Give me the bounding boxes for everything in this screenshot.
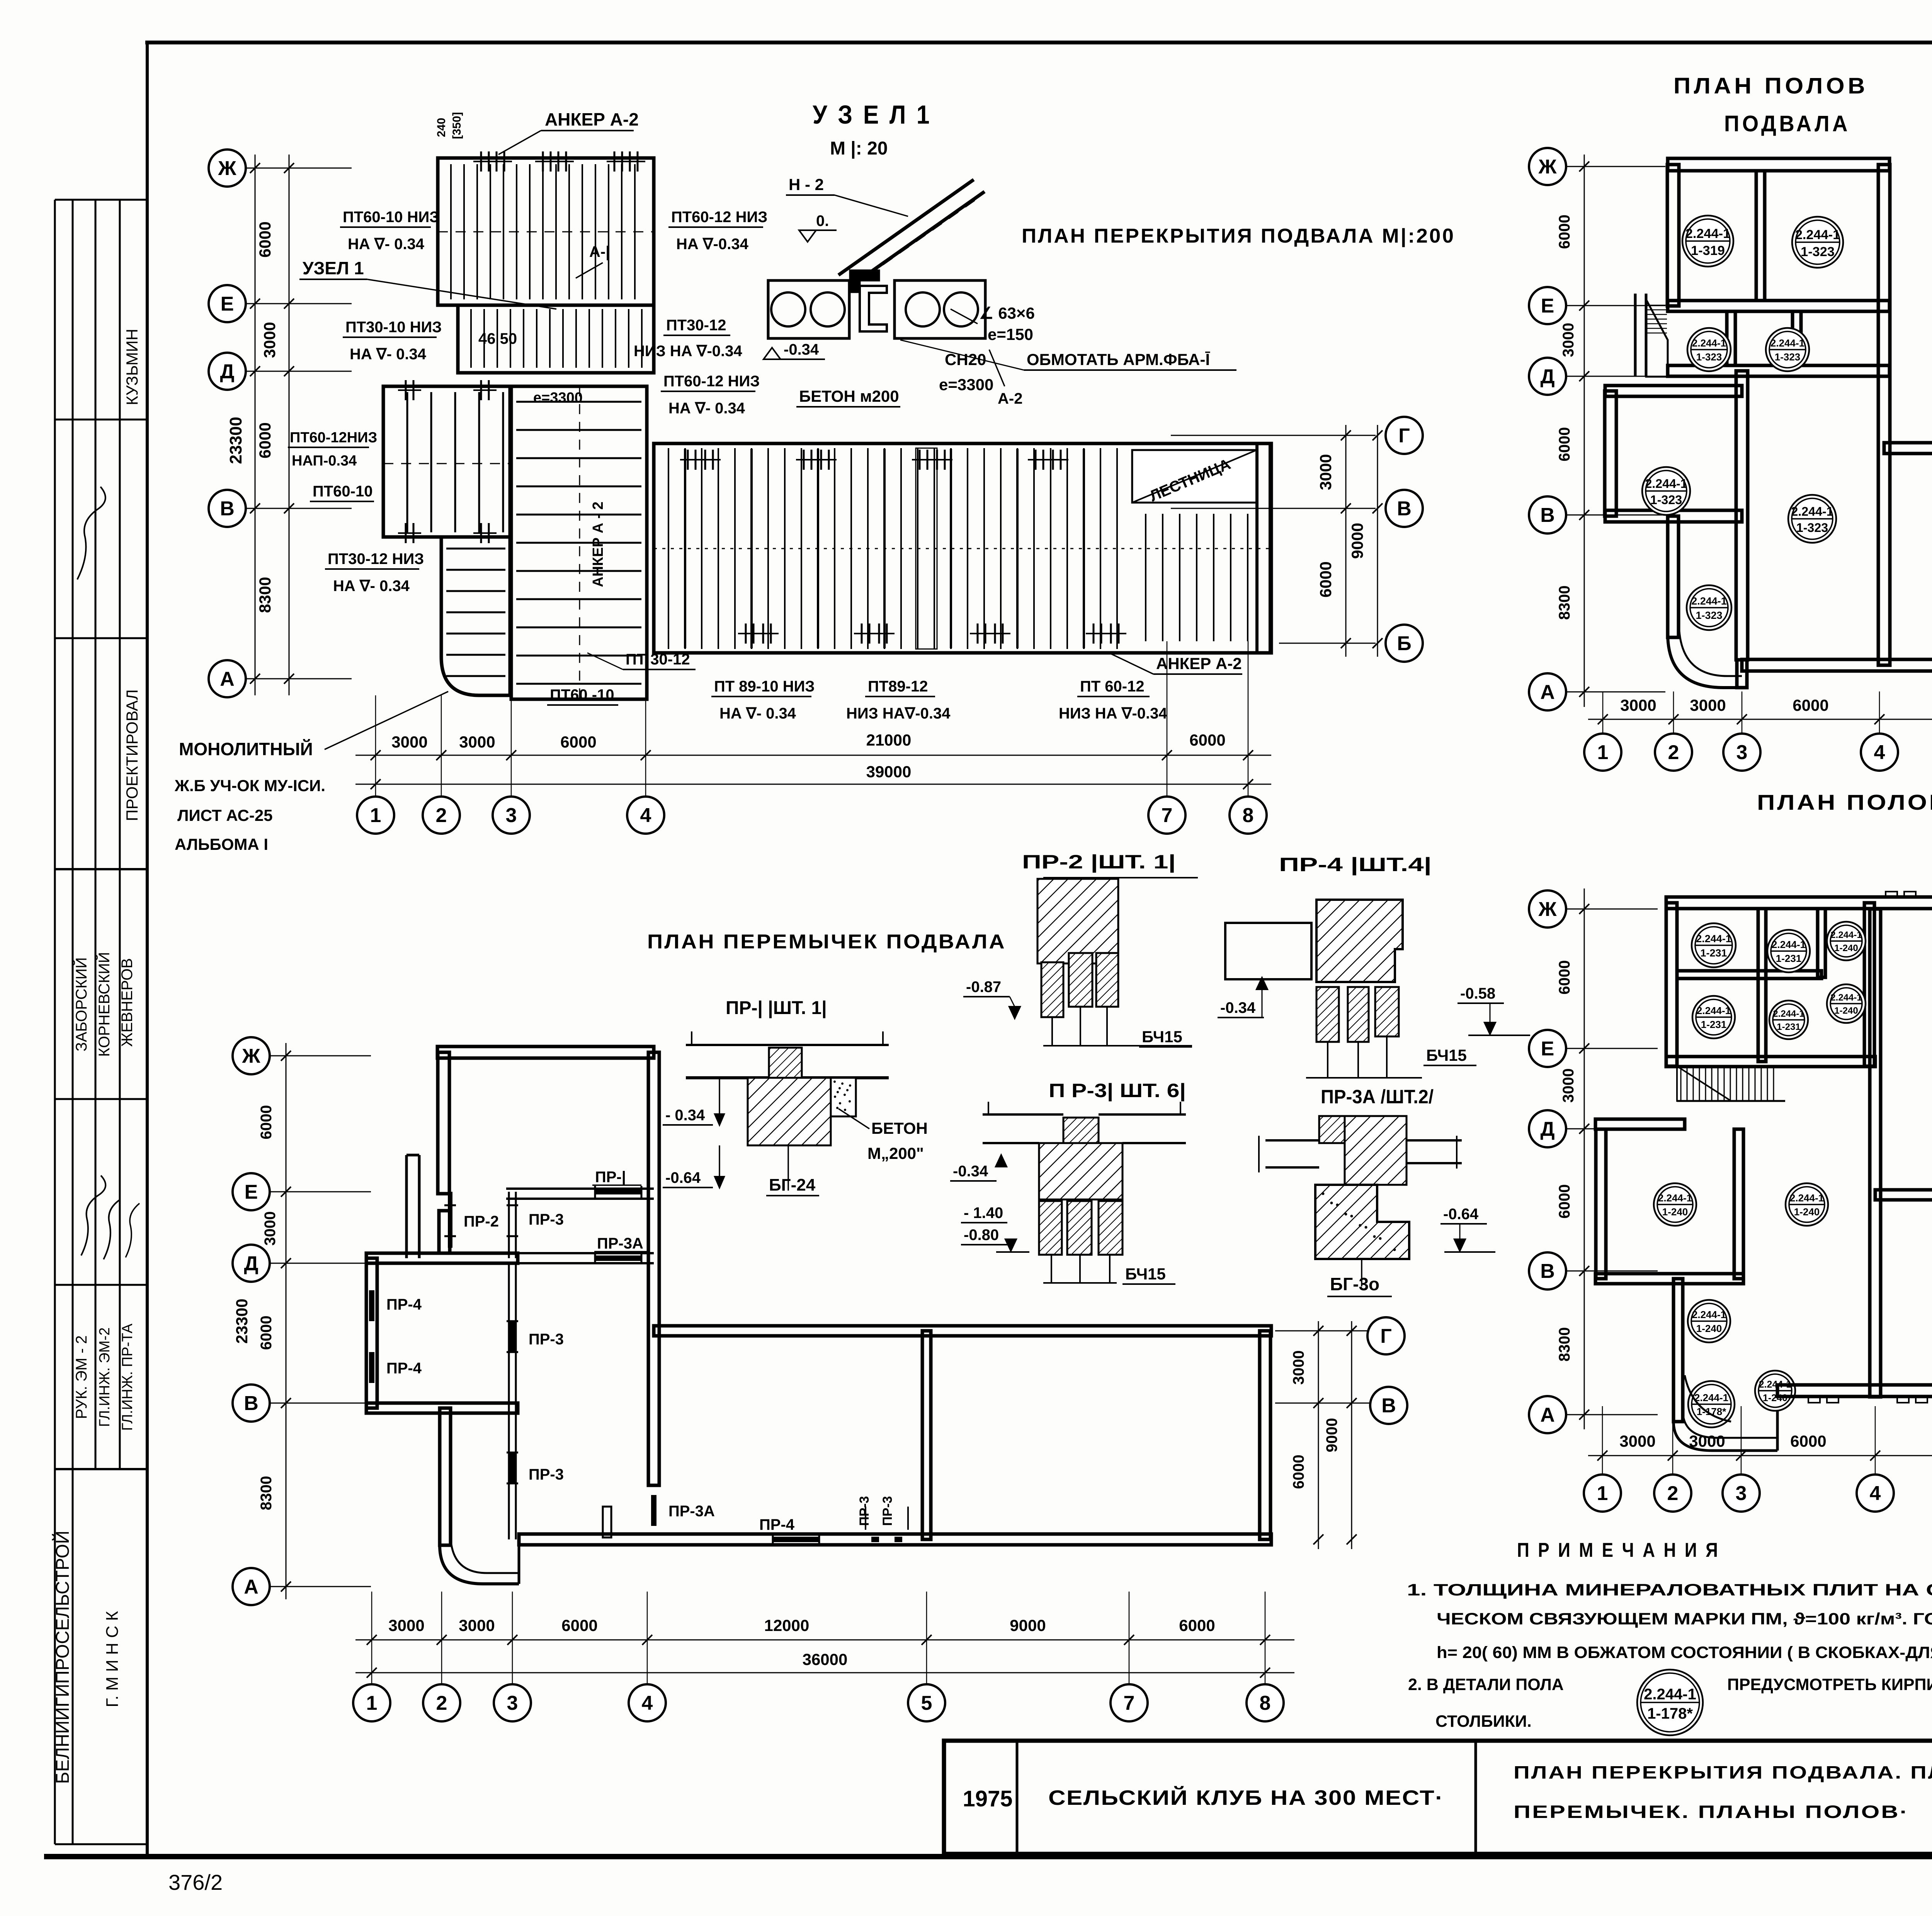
svg-text:БЧ15: БЧ15 <box>1125 1265 1166 1283</box>
BL plan bottom grid bubbles <box>353 1684 390 1721</box>
svg-text:БГ-3о: БГ-3о <box>1330 1274 1379 1294</box>
svg-text:12000: 12000 <box>764 1616 810 1634</box>
svg-text:Д: Д <box>220 360 234 383</box>
BL wall D with PR-3A <box>406 1252 654 1254</box>
uzel1 slab left <box>768 280 849 338</box>
svg-text:ПР-2 |ШТ. 1|: ПР-2 |ШТ. 1| <box>1022 851 1176 873</box>
svg-text:9000: 9000 <box>1348 523 1366 559</box>
svg-text:2: 2 <box>1668 741 1679 764</box>
svg-text:СЕЛЬСКИЙ КЛУБ НА 300 МЕСТ·: СЕЛЬСКИЙ КЛУБ НА 300 МЕСТ· <box>1048 1786 1444 1809</box>
svg-text:2: 2 <box>436 804 447 827</box>
svg-text:9000: 9000 <box>1323 1418 1340 1453</box>
svg-text:ПЛАН ПЕРЕКРЫТИЯ ПОДВАЛА М|:: ПЛАН ПЕРЕКРЫТИЯ ПОДВАЛА М|:200 <box>1022 225 1455 247</box>
svg-text:1975: 1975 <box>963 1786 1012 1811</box>
svg-text:1-319: 1-319 <box>1691 243 1725 258</box>
TL plan lower right slab field <box>1146 514 1248 641</box>
svg-text:ПР-4: ПР-4 <box>386 1296 422 1313</box>
svg-text:ПР-4: ПР-4 <box>759 1516 795 1533</box>
BR plan left dimension chain <box>1584 888 1585 1429</box>
svg-text:В: В <box>220 498 235 520</box>
BL plan left dimension chain <box>286 1043 287 1599</box>
BL plan left block walls <box>366 1258 377 1408</box>
TL plan strip E-D slab field <box>458 305 654 373</box>
svg-text:2: 2 <box>436 1692 447 1714</box>
stamp table grid <box>54 200 56 1844</box>
svg-text:3000: 3000 <box>260 322 279 358</box>
svg-text:3000: 3000 <box>1690 696 1726 714</box>
svg-text:НИЗ НА ∇-0.34: НИЗ НА ∇-0.34 <box>1059 705 1167 722</box>
svg-text:ПР-4 |ШТ.4|: ПР-4 |ШТ.4| <box>1279 854 1432 876</box>
BL plan right dimension chain <box>1275 1330 1376 1332</box>
svg-text:НИЗ НА∇-0.34: НИЗ НА∇-0.34 <box>846 705 951 722</box>
svg-text:-0.64: -0.64 <box>1443 1206 1479 1223</box>
TR room circle 1-323 e <box>1687 585 1731 630</box>
BL lintel PR-2 <box>448 1192 452 1248</box>
svg-text:- 0.34: - 0.34 <box>665 1107 705 1124</box>
svg-text:2.244-1: 2.244-1 <box>1791 505 1833 518</box>
TL plan left slab field <box>383 386 510 537</box>
svg-text:8300: 8300 <box>1556 1327 1573 1362</box>
svg-text:3: 3 <box>1736 1482 1747 1505</box>
TR room circle 1-323 a <box>1792 217 1843 268</box>
svg-text:ПЛАН ПЕРЕКРЫТИЯ ПОДВАЛА. ПЛАН: ПЛАН ПЕРЕКРЫТИЯ ПОДВАЛА. ПЛАН И СЕЧЕНИЯ <box>1514 1762 1932 1782</box>
svg-text:8300: 8300 <box>258 1476 275 1510</box>
TL plan anchors right field <box>687 450 689 470</box>
svg-text:2.244-1: 2.244-1 <box>1773 1009 1804 1019</box>
PR-4 big hatched block <box>1316 900 1403 982</box>
BL plan bottom dimension rows <box>355 1639 1294 1641</box>
svg-text:1-240: 1-240 <box>1794 1206 1820 1218</box>
svg-text:2.244-1: 2.244-1 <box>1795 228 1840 242</box>
svg-text:2: 2 <box>1667 1482 1679 1505</box>
svg-text:Г: Г <box>1398 425 1410 447</box>
svg-text:А: А <box>244 1576 259 1598</box>
TL plan upper slab field <box>438 158 654 305</box>
svg-text:6000: 6000 <box>1556 215 1573 249</box>
uzel1 beam diagonal <box>838 180 974 275</box>
svg-text:НАП-0.34: НАП-0.34 <box>292 453 357 469</box>
svg-text:В: В <box>1540 504 1555 527</box>
svg-text:Д: Д <box>1540 1118 1554 1140</box>
PR-1 big hatched block <box>748 1078 831 1145</box>
svg-text:ПР-3: ПР-3 <box>529 1466 564 1483</box>
svg-text:1-323: 1-323 <box>1696 351 1722 363</box>
TR room circle 1-319 <box>1682 216 1733 267</box>
svg-text:1: 1 <box>1597 741 1609 764</box>
BR room circle 1-240 bottom <box>1755 1371 1795 1411</box>
svg-text:e=3300: e=3300 <box>533 390 583 406</box>
BL plan staircase protrusion <box>405 1155 408 1258</box>
svg-text:ПТ 89-10 НИЗ: ПТ 89-10 НИЗ <box>714 678 815 695</box>
svg-text:БЧ15: БЧ15 <box>1426 1046 1467 1064</box>
svg-text:ПР-3: ПР-3 <box>529 1211 564 1228</box>
svg-text:-0.64: -0.64 <box>665 1169 701 1186</box>
svg-text:e=3300: e=3300 <box>939 375 993 394</box>
svg-text:-0.34: -0.34 <box>953 1163 988 1180</box>
svg-text:46 50: 46 50 <box>478 330 517 347</box>
svg-text:Е: Е <box>1541 1038 1554 1060</box>
svg-text:В: В <box>1540 1260 1555 1283</box>
svg-text:7: 7 <box>1162 804 1173 827</box>
BL col3 wall below V with PR-3 <box>508 1408 510 1539</box>
BL plan lower-left walls <box>440 1408 451 1545</box>
svg-text:1-231: 1-231 <box>1701 1019 1727 1030</box>
BR room circle 1-178* <box>1688 1381 1735 1427</box>
PR-3 small blocks row <box>1039 1201 1062 1255</box>
svg-text:ПТ60-12 НИЗ: ПТ60-12 НИЗ <box>663 373 760 390</box>
svg-text:Н - 2: Н - 2 <box>789 175 824 194</box>
svg-text:ПТ89-12: ПТ89-12 <box>868 678 928 695</box>
svg-text:НА ∇-0.34: НА ∇-0.34 <box>676 236 749 253</box>
svg-text:ПТ 30-12: ПТ 30-12 <box>626 651 690 668</box>
svg-text:2.244-1: 2.244-1 <box>1697 1005 1731 1016</box>
svg-text:НА ∇- 0.34: НА ∇- 0.34 <box>348 236 425 253</box>
svg-text:ЛИСТ АС-25: ЛИСТ АС-25 <box>177 806 273 824</box>
svg-text:3: 3 <box>507 1692 518 1714</box>
svg-text:240: 240 <box>435 118 448 137</box>
svg-text:ПТ30-10 НИЗ: ПТ30-10 НИЗ <box>345 319 442 336</box>
TL plan dashed plate near col5 <box>916 448 937 649</box>
PR-2 small blocks row <box>1041 962 1063 1017</box>
svg-text:ПТ60-12НИЗ: ПТ60-12НИЗ <box>290 430 377 446</box>
svg-text:Ж.Б УЧ-ОК МУ-IСИ.: Ж.Б УЧ-ОК МУ-IСИ. <box>174 776 325 795</box>
svg-text:БЕЛНИИГИПРОСЕЛЬСТРОЙ: БЕЛНИИГИПРОСЕЛЬСТРОЙ <box>52 1531 73 1784</box>
BR plan J wall <box>1666 897 1932 909</box>
TR room circle 1-323 d <box>1642 467 1690 515</box>
svg-text:8300: 8300 <box>1556 586 1573 620</box>
svg-text:3000: 3000 <box>388 1616 424 1634</box>
svg-text:3: 3 <box>1736 741 1748 764</box>
PR-3A lower block BG-3o <box>1315 1185 1409 1259</box>
svg-text:-0.34: -0.34 <box>784 341 819 358</box>
svg-text:3000: 3000 <box>391 733 427 751</box>
svg-text:В: В <box>244 1392 259 1415</box>
svg-text:6000: 6000 <box>1290 1455 1307 1489</box>
PR-4 legs <box>1327 1042 1328 1078</box>
svg-text:1. ТОЛЩИНА МИНЕРАЛОВАТНЫХ: 1. ТОЛЩИНА МИНЕРАЛОВАТНЫХ ПЛИТ НА СИНТЕТ… <box>1407 1581 1932 1599</box>
svg-text:БГ-24: БГ-24 <box>769 1176 816 1194</box>
title block frame <box>944 1741 1932 1854</box>
svg-text:ПТ60-10 НИЗ: ПТ60-10 НИЗ <box>343 209 439 226</box>
svg-text:Е: Е <box>221 293 234 315</box>
TR plan left dimension chain <box>1584 155 1585 707</box>
PR-1 beam <box>686 1044 889 1046</box>
BR plan upper-left block walls <box>1666 903 1677 1066</box>
TR plan upper block walls <box>1668 158 1889 171</box>
svg-text:2.244-1: 2.244-1 <box>1696 933 1731 945</box>
svg-text:ПЕРЕМЫЧЕК. ПЛАНЫ ПОЛОВ·: ПЕРЕМЫЧЕК. ПЛАНЫ ПОЛОВ· <box>1514 1802 1909 1822</box>
TR plan right big block walls <box>1884 443 1932 454</box>
svg-text:ПР-3А /ШТ.2/: ПР-3А /ШТ.2/ <box>1321 1086 1434 1108</box>
svg-text:В: В <box>1397 498 1412 520</box>
svg-text:2.244-1: 2.244-1 <box>1692 1309 1726 1320</box>
BL plan col4 long wall <box>648 1052 659 1485</box>
TL plan center strip slab field <box>511 386 647 699</box>
BR room circle 1-240 left <box>1654 1183 1696 1226</box>
svg-text:e=150: e=150 <box>988 325 1033 343</box>
svg-text:4: 4 <box>1874 741 1885 764</box>
svg-text:Д: Д <box>1540 365 1554 388</box>
svg-text:6000: 6000 <box>256 422 274 458</box>
svg-text:ПР-| |ШТ. 1|: ПР-| |ШТ. 1| <box>726 998 827 1018</box>
PR-3 key hatched block on beam <box>1063 1118 1099 1143</box>
svg-text:21000: 21000 <box>866 731 912 749</box>
svg-text:ПР-|: ПР-| <box>595 1169 626 1186</box>
TL plan left dimension chain <box>255 155 256 695</box>
svg-text:376/2: 376/2 <box>168 1870 223 1894</box>
uzel1 corner angle <box>850 270 879 292</box>
svg-text:Е: Е <box>245 1181 258 1203</box>
svg-text:1-240: 1-240 <box>1834 1006 1858 1016</box>
svg-text:КОРНЕВСКИЙ: КОРНЕВСКИЙ <box>95 952 113 1057</box>
BL plan G wall <box>654 1326 1271 1336</box>
svg-text:[350]: [350] <box>451 112 463 139</box>
svg-text:АНКЕР А-2: АНКЕР А-2 <box>545 109 639 129</box>
TR plan left grid bubbles <box>1529 148 1566 185</box>
svg-text:Ж: Ж <box>1538 156 1557 178</box>
svg-text:2. В ДЕТАЛИ ПОЛА: 2. В ДЕТАЛИ ПОЛА <box>1408 1675 1564 1694</box>
svg-text:ПР-3: ПР-3 <box>880 1496 895 1526</box>
notes inline symbol circle <box>1637 1670 1703 1735</box>
svg-text:А-|: А-| <box>589 243 610 260</box>
svg-text:8: 8 <box>1260 1692 1271 1714</box>
BL plan col8 right wall <box>1260 1331 1270 1539</box>
BR room circle 1-240 lower <box>1688 1300 1730 1342</box>
TL plan lower-left slab field <box>441 537 510 695</box>
svg-text:1-323: 1-323 <box>1801 245 1835 259</box>
svg-text:-0.58: -0.58 <box>1460 985 1495 1002</box>
svg-text:∠ 63×6: ∠ 63×6 <box>979 304 1035 322</box>
svg-text:2.244-1: 2.244-1 <box>1658 1192 1692 1204</box>
TL plan bottom dimension row <box>355 755 1271 756</box>
svg-text:1-231: 1-231 <box>1700 947 1727 959</box>
stamp signature 2 <box>81 1176 105 1255</box>
PR-3A top hatched blocks <box>1319 1116 1345 1143</box>
svg-text:РУК. ЭМ - 2: РУК. ЭМ - 2 <box>73 1335 90 1419</box>
svg-text:1-231: 1-231 <box>1777 1022 1800 1032</box>
svg-text:СТОЛБИКИ.: СТОЛБИКИ. <box>1435 1712 1532 1731</box>
svg-text:ПР-2: ПР-2 <box>464 1213 499 1230</box>
svg-text:Ж: Ж <box>242 1045 261 1067</box>
sheet frame left border <box>146 42 149 1857</box>
svg-text:3000: 3000 <box>262 1211 279 1246</box>
BR plan D row walls left protrusion <box>1595 1119 1685 1129</box>
BL col3 partition upper with PR-3 <box>508 1192 510 1258</box>
svg-text:4: 4 <box>642 1692 653 1714</box>
svg-text:7: 7 <box>1124 1692 1135 1714</box>
PR-1 hatched key block <box>769 1048 802 1078</box>
svg-text:2.244-1: 2.244-1 <box>1694 1392 1728 1403</box>
stamp signature 1 <box>77 487 105 579</box>
svg-text:3000: 3000 <box>1560 1069 1577 1103</box>
PR-3 legs <box>1051 1255 1052 1283</box>
svg-text:БЧ15: БЧ15 <box>1142 1028 1182 1046</box>
TL plan anchors upper <box>480 151 482 172</box>
svg-text:3000: 3000 <box>1620 696 1656 714</box>
BL lintel PR-4 on B wall <box>773 1537 819 1542</box>
svg-text:ПТ60-10: ПТ60-10 <box>313 483 373 500</box>
svg-text:Г. М И Н С К: Г. М И Н С К <box>103 1611 122 1707</box>
svg-text:6000: 6000 <box>1790 1432 1826 1450</box>
svg-text:2.244-1: 2.244-1 <box>1692 337 1726 349</box>
uzel1 slab right <box>895 280 985 338</box>
svg-text:ПОДВАЛА: ПОДВАЛА <box>1724 111 1850 136</box>
svg-text:ГЛ.ИНЖ. ЭМ-2: ГЛ.ИНЖ. ЭМ-2 <box>97 1327 113 1427</box>
svg-text:ЧЕСКОМ СВЯЗУЮЩЕМ МАРКИ ПМ, ϑ=1: ЧЕСКОМ СВЯЗУЮЩЕМ МАРКИ ПМ, ϑ=100 кг/м³. … <box>1437 1610 1932 1628</box>
TR plan staircase protrusion <box>1634 294 1637 377</box>
svg-text:3000: 3000 <box>1619 1432 1655 1450</box>
svg-text:А: А <box>1540 1404 1555 1426</box>
BL col3 wall D-V with PR-3 <box>508 1263 510 1408</box>
svg-text:БЕТОН: БЕТОН <box>871 1119 928 1137</box>
BL lintel PR-4 a <box>369 1290 374 1321</box>
BR plan bottom grid bubbles <box>1584 1475 1621 1512</box>
svg-text:36000: 36000 <box>803 1650 848 1668</box>
svg-text:0.: 0. <box>816 212 829 229</box>
PR-3 beam <box>983 1113 1063 1116</box>
TR room circle 1-323 b <box>1687 328 1731 371</box>
TL plan bottom grid bubbles <box>357 797 394 834</box>
svg-text:23300: 23300 <box>226 417 245 464</box>
svg-text:ГЛ.ИНЖ. ПР-ТА: ГЛ.ИНЖ. ПР-ТА <box>119 1323 136 1431</box>
svg-text:П Р И М Е Ч А Н И Я: П Р И М Е Ч А Н И Я <box>1517 1539 1720 1561</box>
svg-text:2.244-1: 2.244-1 <box>1644 1686 1696 1703</box>
BL plan upper block walls <box>437 1046 654 1058</box>
PR-4 left plain block <box>1225 923 1311 979</box>
svg-text:ПЛАН ПОЛОВ: ПЛАН ПОЛОВ <box>1673 73 1868 99</box>
BR plan col4 wall halls <box>1870 909 1881 1397</box>
svg-text:3000: 3000 <box>1290 1351 1307 1385</box>
BL plan col5 wall <box>922 1331 931 1539</box>
BR room circles upper-left <box>1692 923 1736 967</box>
svg-text:А: А <box>220 668 235 690</box>
svg-text:2.244-1: 2.244-1 <box>1830 930 1862 940</box>
svg-text:ПТ30-12: ПТ30-12 <box>666 317 726 334</box>
svg-text:АНКЕР А - 2: АНКЕР А - 2 <box>590 501 606 587</box>
PR-1 small dotted block <box>831 1078 856 1116</box>
BL lintel PR-3A bottom <box>651 1495 656 1526</box>
TR plan bottom grid bubbles <box>1584 734 1621 771</box>
svg-text:1-323: 1-323 <box>1796 521 1828 535</box>
svg-text:6000: 6000 <box>1189 731 1225 749</box>
BR room circle 1-240 mid <box>1786 1183 1828 1226</box>
PR-3A beam left <box>1265 1139 1319 1142</box>
svg-text:Е: Е <box>1541 295 1554 317</box>
svg-text:1-323: 1-323 <box>1696 610 1722 621</box>
TL plan right big slab field <box>654 443 1271 653</box>
sheet frame top border <box>145 41 1932 44</box>
PR-2 big hatched block <box>1037 879 1118 963</box>
svg-text:Ж: Ж <box>218 157 237 180</box>
svg-text:2.244-1: 2.244-1 <box>1790 1192 1824 1204</box>
svg-text:ПЛАН ПОЛОВ 1-ГО ЭТАЖА: ПЛАН ПОЛОВ 1-ГО ЭТАЖА <box>1757 790 1932 814</box>
svg-text:НИЗ НА ∇-0.34: НИЗ НА ∇-0.34 <box>634 343 742 360</box>
svg-text:У З Е Л 1: У З Е Л 1 <box>813 100 932 129</box>
svg-text:А: А <box>1540 681 1555 703</box>
svg-text:39000: 39000 <box>866 763 912 781</box>
BL plan left grid bubbles <box>233 1037 270 1074</box>
svg-text:2.244-1: 2.244-1 <box>1691 595 1727 607</box>
TR room circle 1-323 c <box>1766 328 1809 371</box>
svg-text:А-2: А-2 <box>998 390 1022 407</box>
svg-text:2.244-1: 2.244-1 <box>1770 337 1804 349</box>
svg-text:1: 1 <box>1597 1482 1608 1505</box>
TL plan grid bubbles left <box>209 149 246 187</box>
svg-text:3000: 3000 <box>1560 323 1577 357</box>
svg-text:23300: 23300 <box>233 1299 251 1344</box>
svg-text:2.244-1: 2.244-1 <box>1830 992 1862 1003</box>
BR plan staircase hatch <box>1677 1066 1731 1101</box>
svg-text:2.244-1: 2.244-1 <box>1772 939 1806 950</box>
svg-text:АНКЕР А-2: АНКЕР А-2 <box>1156 654 1242 673</box>
svg-text:Б: Б <box>1397 632 1411 655</box>
svg-text:1: 1 <box>370 804 381 827</box>
svg-text:-0.34: -0.34 <box>1220 999 1256 1016</box>
svg-text:6000: 6000 <box>1556 1184 1573 1219</box>
PR-2 legs <box>1051 1017 1053 1046</box>
TR plan strip E-D walls <box>1668 365 1889 376</box>
svg-text:3000: 3000 <box>1316 454 1335 490</box>
BL lintel PR-1 mark and wall E <box>506 1187 654 1190</box>
svg-text:3000: 3000 <box>459 733 495 751</box>
BL lintel PR-4 b <box>369 1352 374 1383</box>
BL plan right grid bubbles <box>1367 1317 1405 1354</box>
svg-text:3000: 3000 <box>459 1616 495 1634</box>
svg-text:5: 5 <box>921 1692 932 1714</box>
svg-text:НА ∇- 0.34: НА ∇- 0.34 <box>668 400 745 417</box>
svg-text:КУЗЬМИН: КУЗЬМИН <box>123 329 141 405</box>
BR plan bottom dimension row <box>1588 1455 1932 1456</box>
svg-text:1: 1 <box>366 1692 378 1714</box>
svg-text:6000: 6000 <box>258 1105 275 1140</box>
PR-3A beam right <box>1406 1139 1462 1142</box>
svg-text:ПТ30-12 НИЗ: ПТ30-12 НИЗ <box>328 550 424 567</box>
svg-text:2.244-1: 2.244-1 <box>1685 226 1730 241</box>
svg-text:6000: 6000 <box>1793 696 1828 714</box>
svg-text:ПР-3А: ПР-3А <box>668 1503 715 1520</box>
svg-text:1-240: 1-240 <box>1696 1323 1722 1334</box>
svg-text:-0.87: -0.87 <box>966 979 1001 996</box>
svg-text:1-240: 1-240 <box>1834 943 1858 953</box>
svg-text:ПТ60 -10: ПТ60 -10 <box>550 686 614 703</box>
PR-4 small blocks row <box>1316 987 1339 1042</box>
svg-text:ЗАБОРСКИЙ: ЗАБОРСКИЙ <box>72 957 90 1052</box>
svg-text:ПРЕДУСМОТРЕТЬ КИРПИЧНЫЕ: ПРЕДУСМОТРЕТЬ КИРПИЧНЫЕ <box>1727 1675 1932 1694</box>
svg-text:ПРОЕКТИРОВАЛ: ПРОЕКТИРОВАЛ <box>123 689 141 821</box>
svg-text:-0.80: -0.80 <box>964 1227 999 1244</box>
svg-text:1-231: 1-231 <box>1776 953 1802 964</box>
BR plan left grid bubbles <box>1529 1030 1566 1067</box>
svg-text:ПР-3А: ПР-3А <box>597 1235 643 1252</box>
svg-text:8300: 8300 <box>256 577 274 613</box>
svg-text:УЗЕЛ 1: УЗЕЛ 1 <box>303 258 364 278</box>
BL plan B wall bottom <box>519 1534 1271 1545</box>
svg-text:Г: Г <box>1380 1325 1391 1347</box>
TR plan lower-left block <box>1668 516 1679 637</box>
svg-text:6000: 6000 <box>1556 427 1573 462</box>
PR-3 big hatched block <box>1039 1143 1122 1199</box>
BR plan mid-left lower walls <box>1673 1279 1683 1422</box>
svg-text:1-178*: 1-178* <box>1647 1705 1693 1722</box>
sheet frame bottom border <box>44 1854 1932 1859</box>
svg-text:h= 20( 60) ММ В ОБЖАТОМ СО: h= 20( 60) ММ В ОБЖАТОМ СОСТОЯНИИ ( В СК… <box>1437 1643 1932 1662</box>
svg-text:6000: 6000 <box>561 1616 597 1634</box>
PR-2 top break line <box>1043 877 1198 878</box>
BR plan B wall bottom with crenellations <box>1777 1385 1932 1396</box>
svg-text:ПР-3: ПР-3 <box>857 1496 872 1526</box>
svg-text:6000: 6000 <box>258 1316 275 1350</box>
TL plan right dimension chain <box>1171 435 1376 436</box>
